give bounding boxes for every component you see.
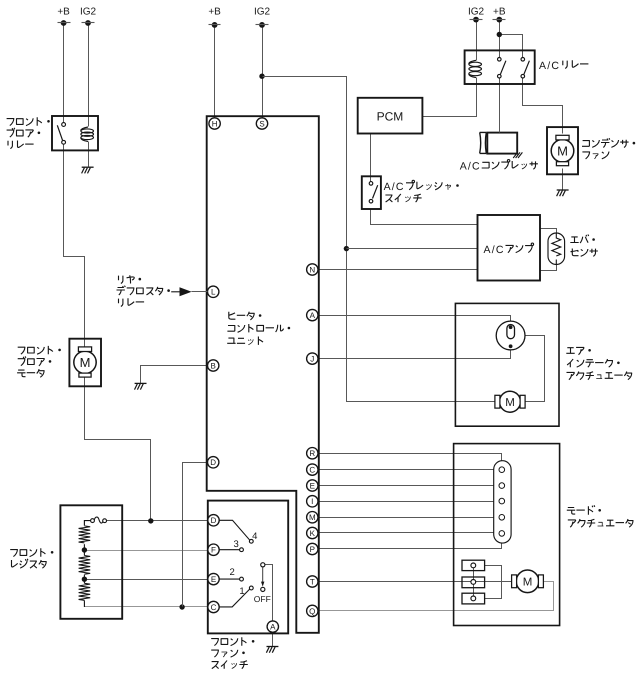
compressor case ground hatch xyxy=(513,152,522,158)
wire resistor top to fan switch pin D xyxy=(107,520,208,522)
label eva sensor xyxy=(570,235,595,244)
junction dot on +B branch xyxy=(497,32,502,37)
svg-text:A: A xyxy=(270,623,276,632)
fan switch contact 1 xyxy=(219,589,250,607)
A/C relay switch 1 xyxy=(498,58,502,62)
front fan switch box xyxy=(208,501,288,634)
wire IG2 to A/C relay coil xyxy=(476,20,478,61)
mode limit switch 1 xyxy=(462,560,485,570)
wire heater pin P to mode position sensor xyxy=(319,543,502,549)
wire +B to front blower relay switch xyxy=(63,23,65,123)
label condenser fan xyxy=(582,138,635,147)
wire +B branch to right relay switch xyxy=(500,35,523,58)
wire heater pin R to mode position sensor xyxy=(319,454,502,461)
svg-text:P: P xyxy=(310,545,315,554)
A/C relay switch 2 xyxy=(521,58,525,62)
heater pin B xyxy=(208,360,219,371)
svg-text:M: M xyxy=(80,355,91,370)
wire fan switch wiper to pin A xyxy=(265,565,273,621)
wire heater pin A to air intake position switch xyxy=(319,316,511,327)
mode position sensor contacts xyxy=(499,467,505,473)
wire front blower motor to node on resistor feed xyxy=(85,387,151,521)
svg-text:R: R xyxy=(309,449,315,458)
wire resistor tap to fan switch pin E xyxy=(85,579,208,581)
ground below front blower relay coil xyxy=(82,167,94,173)
heater pin H xyxy=(209,118,220,129)
fan switch pin F xyxy=(208,544,219,555)
fan switch pin E xyxy=(208,573,219,584)
wire heater pin M to mode position sensor xyxy=(319,517,499,519)
front blower relay coil xyxy=(81,127,94,142)
ground for heater unit pin B xyxy=(135,383,147,389)
wire condenser fan to ground xyxy=(562,175,564,190)
mode limit switch 3 xyxy=(462,593,485,604)
svg-text:M: M xyxy=(557,144,568,159)
ground below fan switch pin A xyxy=(266,647,278,653)
svg-text:1: 1 xyxy=(239,586,244,597)
junction dot on resistor-to-D wire xyxy=(148,518,153,523)
wire IG2 to heater pin S xyxy=(262,25,264,118)
wire resistor bottom stub xyxy=(84,603,86,607)
A/C compressor clutch xyxy=(487,133,517,154)
air intake actuator box xyxy=(455,303,559,426)
label air intake actuator xyxy=(566,347,591,354)
heater pin R xyxy=(307,448,318,459)
fan switch contact 4 xyxy=(219,520,250,540)
heater pin J xyxy=(307,353,318,364)
front resistor box xyxy=(60,505,122,619)
label front blower relay xyxy=(7,117,50,125)
eva sensor thermistor xyxy=(552,238,561,256)
wire heater pin Q to mode motor xyxy=(319,582,554,611)
svg-text:IG2: IG2 xyxy=(468,6,485,17)
heater pin Q xyxy=(307,605,318,616)
heater pin C xyxy=(307,464,318,475)
terminal IG2 right xyxy=(473,17,479,23)
svg-text:A/C: A/C xyxy=(484,244,505,256)
svg-text:E: E xyxy=(310,481,315,490)
wire heater pin T to mode motor xyxy=(319,581,514,583)
wire heater unit pin B to ground xyxy=(141,366,207,384)
air intake motor M xyxy=(500,391,521,412)
wire IG2 branch to A/C amp xyxy=(347,248,478,250)
eva sensor body xyxy=(548,233,565,265)
A/C amp box xyxy=(478,215,541,281)
svg-text:PCM: PCM xyxy=(377,110,404,124)
svg-text:+B: +B xyxy=(57,6,70,17)
wire A/C relay switch to compressor clutch xyxy=(499,79,501,133)
heater pin S xyxy=(256,118,267,129)
svg-text:T: T xyxy=(310,577,315,586)
svg-text:3: 3 xyxy=(234,539,239,550)
svg-text:E: E xyxy=(211,575,216,584)
wire heater unit pin D down to C wire xyxy=(183,463,207,607)
wire heater pin C to mode position sensor xyxy=(319,469,499,471)
fan switch pin D xyxy=(208,515,219,526)
front blower motor M xyxy=(74,351,96,373)
wire heater pin J to air intake position switch xyxy=(319,347,511,359)
svg-text:OFF: OFF xyxy=(254,594,271,604)
mode actuator box xyxy=(454,444,560,626)
svg-text:M: M xyxy=(309,513,316,522)
wire heater pin N to A/C amp xyxy=(319,269,478,271)
heater pin A xyxy=(307,309,318,320)
wire heater pin I to mode position sensor xyxy=(319,501,499,503)
A/C relay coil xyxy=(469,60,482,77)
fan switch pin C xyxy=(208,601,219,612)
wire A/C pressure switch to A/C amp xyxy=(371,209,478,225)
svg-text:S: S xyxy=(259,119,264,128)
wire +B to A/C relay switches xyxy=(499,20,501,58)
label mode actuator xyxy=(567,505,601,514)
svg-text:J: J xyxy=(310,355,314,364)
label heater control unit xyxy=(229,312,262,320)
label rear defroster relay xyxy=(119,275,142,283)
wire A/C relay coil to PCM xyxy=(423,78,477,117)
svg-text:H: H xyxy=(212,119,218,128)
fan switch wiper with OFF arrow xyxy=(261,563,265,567)
svg-text:F: F xyxy=(211,546,216,555)
junction dot on C wire xyxy=(179,604,184,609)
wire through mode limit switch contacts xyxy=(473,566,475,599)
svg-text:C: C xyxy=(309,466,315,475)
wire mode limit switches link xyxy=(485,566,502,599)
wire air intake position switch to motor xyxy=(525,336,545,402)
ground below condenser fan xyxy=(557,190,569,196)
mode motor M xyxy=(516,570,539,593)
svg-text:A/C: A/C xyxy=(384,181,405,193)
A/C relay box xyxy=(465,50,535,84)
junction dot on IG2 wire xyxy=(259,74,264,79)
heater pin K xyxy=(307,527,318,538)
arrow to heater pin L xyxy=(171,291,179,293)
wire PCM to A/C pressure switch xyxy=(370,134,372,182)
terminal +B right xyxy=(496,17,502,23)
wire heater pin K to mode position sensor xyxy=(319,532,499,534)
terminal +B left xyxy=(61,20,67,26)
front blower motor box xyxy=(69,339,101,387)
junction dot on IG2 branch xyxy=(344,246,349,251)
wire A/C amp to eva sensor bottom xyxy=(541,265,557,271)
PCM box xyxy=(358,98,423,134)
front blower relay switch xyxy=(62,123,66,127)
svg-text:A: A xyxy=(310,311,316,320)
heater pin N xyxy=(307,264,318,275)
svg-text:C: C xyxy=(211,603,217,612)
svg-text:4: 4 xyxy=(252,531,257,542)
terminal IG2 middle xyxy=(259,22,265,28)
svg-text:Q: Q xyxy=(309,607,315,616)
fan switch contact 2 xyxy=(219,578,239,580)
fan switch contact 3 xyxy=(219,549,239,551)
wire inside front blower motor xyxy=(84,339,86,348)
svg-text:M: M xyxy=(523,576,533,588)
wire resistor tap to fan switch pin F xyxy=(85,550,208,552)
svg-text:D: D xyxy=(211,516,217,525)
heater pin D xyxy=(208,457,219,468)
svg-text:L: L xyxy=(211,288,216,297)
wire into compressor xyxy=(499,127,501,133)
heater pin E xyxy=(307,480,318,491)
svg-text:IG2: IG2 xyxy=(254,6,271,17)
wire IG2 to front blower relay coil xyxy=(88,23,90,127)
heater control unit outline xyxy=(207,116,319,633)
mode position sensor body xyxy=(494,461,511,543)
A/C pressure switch box xyxy=(362,176,381,209)
front resistor thermal fuse xyxy=(84,521,90,525)
condenser fan box xyxy=(547,127,578,174)
svg-text:B: B xyxy=(211,361,216,370)
front blower relay box xyxy=(52,116,98,150)
terminal IG2 left xyxy=(85,20,91,26)
heater pin I xyxy=(307,496,318,507)
svg-text:N: N xyxy=(309,265,315,274)
front resistor element xyxy=(83,524,85,527)
wire front blower relay coil to ground xyxy=(88,142,90,167)
air intake position switch xyxy=(496,321,525,350)
svg-text:D: D xyxy=(210,458,216,467)
wire resistor bottom to fan switch pin C xyxy=(85,606,208,608)
wire A/C amp to eva sensor top xyxy=(541,229,557,234)
svg-text:I: I xyxy=(311,497,313,506)
svg-text:A/C: A/C xyxy=(539,60,560,72)
wire fan switch pin A to ground xyxy=(272,633,274,647)
front resistor tap dots xyxy=(82,547,87,552)
heater pin T xyxy=(307,576,318,587)
heater pin P xyxy=(307,543,318,554)
wire IG2 branch to A/C amp and air intake actuator xyxy=(263,77,496,402)
wire front blower relay switch to front blower motor xyxy=(64,145,85,339)
svg-text:M: M xyxy=(505,397,515,409)
heater pin L xyxy=(208,286,219,297)
svg-text:2: 2 xyxy=(230,567,235,578)
svg-text:IG2: IG2 xyxy=(80,6,97,17)
svg-text:K: K xyxy=(310,529,316,538)
svg-text:+B: +B xyxy=(493,6,506,17)
label front blower motor xyxy=(18,346,61,354)
label front resistor xyxy=(10,548,53,556)
terminal +B middle xyxy=(212,22,218,28)
A/C pressure switch contacts xyxy=(369,182,373,186)
svg-text:+B: +B xyxy=(208,6,221,17)
wire +B to heater pin H xyxy=(214,25,216,118)
wire heater pin E to mode position sensor xyxy=(319,485,499,487)
condenser fan motor M xyxy=(551,140,574,163)
mode limit switch 2 xyxy=(462,577,485,588)
label front fan switch xyxy=(211,637,254,645)
wire inside condenser fan xyxy=(562,128,564,134)
fan switch pin A xyxy=(267,621,278,632)
heater pin M xyxy=(307,512,318,523)
wire A/C relay switch to condenser fan xyxy=(523,79,563,128)
svg-text:A/C: A/C xyxy=(460,161,481,173)
